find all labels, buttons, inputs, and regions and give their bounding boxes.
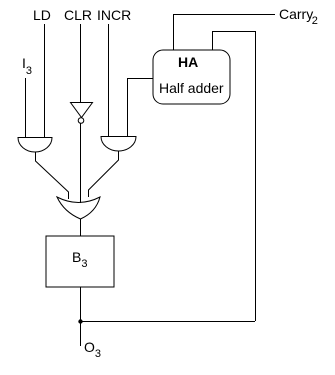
svg-text:HA: HA [178,54,198,70]
wire Carry2 to HA input [174,15,276,51]
wire LD vertical [44,24,46,137]
AND gate (INCR, HA) [101,137,136,152]
AND gate (LD, I3) [18,138,52,153]
register B3 box [46,236,114,287]
junction node [78,319,82,323]
wire CLR to inverter [80,24,82,102]
wire I3 vertical [25,78,27,137]
wire B3 output to O3 [80,287,82,346]
wire right AND output diagonal [89,151,119,197]
wire left AND output diagonal [36,152,69,199]
wire HA output to right AND gate [128,79,154,137]
svg-text:CLR: CLR [64,7,92,23]
svg-text:Half adder: Half adder [159,80,224,96]
wire inverter to OR gate [80,124,82,204]
wire INCR vertical [108,24,110,136]
OR gate [57,197,100,219]
half adder box U1 [153,50,230,104]
wire right rail to junction [80,321,255,323]
inverter (CLR) [71,103,93,124]
svg-text:LD: LD [33,7,51,23]
wire OR output to B3 [80,219,82,236]
svg-text:INCR: INCR [97,7,131,23]
wire HA input from right rail [213,32,256,322]
